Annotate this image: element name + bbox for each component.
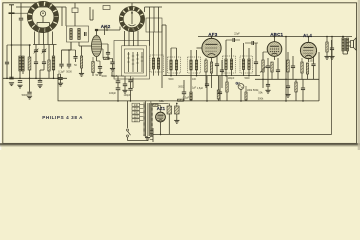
value 150 [309, 60, 314, 63]
wire [190, 76, 192, 101]
svg-text:PHILIPS 4 38 A: PHILIPS 4 38 A [42, 115, 83, 120]
coil L10d [157, 58, 159, 69]
wire [211, 73, 213, 88]
capacitor C9 [38, 80, 42, 82]
wire [43, 32, 45, 45]
svg-text:10k: 10k [159, 99, 164, 103]
wire [102, 44, 109, 52]
wire [274, 56, 276, 60]
wire [244, 43, 250, 76]
wire [35, 45, 37, 62]
value smudge d [244, 78, 250, 80]
capacitor C24 [276, 70, 280, 72]
capacitor C6 [34, 62, 38, 64]
wire [267, 86, 269, 90]
volume potentiometer R13 [260, 60, 266, 73]
bandswitch coil box inner [125, 49, 144, 73]
wire [308, 36, 310, 43]
wire [62, 49, 76, 51]
wire [205, 58, 207, 88]
trimmer capacitor C7 [42, 49, 47, 54]
resistor R11 [205, 60, 207, 72]
resistor R20 [301, 62, 303, 73]
wire [226, 76, 228, 101]
resistor R2 [48, 60, 50, 71]
coil L11 [170, 60, 172, 70]
resistor R23 [153, 104, 158, 106]
value 5000 [66, 71, 72, 74]
wire [165, 28, 167, 76]
right scan edge [358, 0, 360, 150]
bandswitch coil box mid [122, 46, 147, 76]
wire [57, 74, 59, 79]
wire [124, 31, 126, 46]
wire [153, 102, 169, 104]
capacitor C10 [85, 32, 87, 36]
resistor R15 [245, 92, 247, 100]
wire [53, 45, 55, 80]
wire [263, 52, 267, 79]
wire [262, 79, 264, 89]
coil L1 [19, 56, 21, 71]
wire [37, 23, 50, 27]
wire [267, 58, 269, 79]
small shield box [103, 6, 110, 10]
wire [29, 44, 31, 78]
capacitor C23b [266, 84, 270, 86]
ground [79, 73, 84, 76]
ground [17, 85, 22, 88]
IF coil can [150, 55, 164, 72]
capacitor C38 [123, 84, 127, 86]
capacitor C38b [128, 80, 132, 82]
wire [33, 44, 57, 46]
resistor R1 [28, 57, 31, 70]
value 5000b [101, 75, 107, 78]
wire [16, 6, 66, 8]
capacitor C15 [106, 52, 110, 54]
wire [105, 26, 108, 35]
svg-text:AL4: AL4 [303, 33, 312, 38]
wire [12, 44, 32, 46]
wire [150, 101, 152, 103]
ground [145, 138, 150, 141]
wire [211, 36, 213, 39]
label Gr [236, 82, 241, 86]
IF transformer T3 can [223, 56, 236, 73]
chassis boundary box [58, 74, 319, 135]
value 100k 500k [247, 88, 260, 92]
wire [292, 56, 294, 79]
antenna terminal [9, 5, 15, 13]
value 1uF [192, 87, 197, 90]
wire [58, 74, 61, 83]
capacitor C12b [73, 57, 77, 59]
wire [34, 32, 36, 45]
svg-text:5000: 5000 [66, 71, 72, 74]
svg-text:AF3: AF3 [208, 32, 217, 37]
value 50 [95, 74, 98, 77]
value 10k [159, 99, 164, 103]
wire [40, 64, 44, 80]
wire [226, 40, 232, 76]
ground [265, 90, 270, 93]
svg-text:ABC1: ABC1 [270, 32, 283, 37]
wire [117, 90, 119, 101]
resistor R6 [92, 62, 95, 73]
ground [285, 94, 290, 97]
svg-text:AK2: AK2 [101, 24, 111, 29]
capacitor C3 [18, 81, 22, 83]
mains lead [127, 101, 129, 128]
wire [342, 36, 347, 54]
wire [68, 66, 70, 69]
capacitor C33 [58, 78, 63, 80]
oscillator coil box [67, 26, 89, 42]
wire [285, 36, 287, 101]
label AK2 [101, 24, 111, 29]
coil L9b [152, 58, 154, 69]
octode V1 AK2 [92, 35, 102, 56]
resistor R16b [178, 99, 184, 101]
wire [154, 32, 159, 76]
switch contact block [72, 3, 78, 26]
coil L3 [52, 56, 55, 70]
resistor R16 [217, 90, 220, 99]
electrolytic C39 [167, 106, 172, 114]
wire [52, 32, 54, 45]
svg-text:100pF: 100pF [109, 92, 117, 95]
wire [171, 48, 177, 76]
wire [168, 103, 170, 134]
wire [313, 56, 315, 79]
capacitor C27 [218, 92, 222, 94]
resistor R5 [80, 56, 82, 68]
capacitor C1 [9, 77, 13, 79]
wire [68, 49, 70, 63]
value smudge a [168, 79, 174, 81]
svg-text:100pF: 100pF [228, 78, 235, 80]
value 100pF b [123, 94, 131, 97]
wire [287, 79, 289, 94]
svg-text:5000: 5000 [168, 79, 174, 81]
wire [183, 80, 185, 101]
wire [102, 49, 113, 58]
ground [324, 56, 329, 59]
wire [15, 12, 28, 14]
wire [240, 89, 242, 101]
svg-text:5000: 5000 [101, 75, 107, 78]
wire [267, 79, 269, 84]
mains switch [126, 129, 130, 137]
wire [295, 79, 297, 101]
IF transformer T2 can [188, 57, 201, 73]
wire [206, 76, 208, 101]
ground [27, 96, 32, 99]
value 5000 [22, 93, 28, 97]
wire [349, 42, 351, 46]
svg-text:200: 200 [134, 112, 139, 115]
grid cap lead [95, 27, 120, 36]
coil L4 [70, 29, 73, 40]
wire [92, 57, 94, 76]
coil L5 [78, 29, 81, 40]
coil L2 [22, 56, 24, 71]
wire [11, 44, 13, 79]
ground [9, 83, 14, 86]
wire [149, 32, 151, 46]
trimmer inside S1 [40, 11, 45, 23]
bandswitch coil box outer [114, 41, 150, 80]
capacitor C37 [116, 88, 121, 90]
value 1.5uF [197, 87, 204, 90]
capacitor C4 [27, 92, 31, 94]
wire [191, 50, 197, 76]
coil L12 [175, 60, 177, 70]
svg-text:300Ω: 300Ω [178, 86, 184, 89]
wire [158, 105, 161, 112]
wire [216, 56, 218, 76]
capacitor C14 [110, 62, 114, 64]
gramophone jack [238, 84, 244, 90]
value 100pFc [111, 75, 118, 78]
coil L10c [141, 52, 143, 72]
coil L19 [190, 92, 192, 100]
wire [302, 79, 304, 101]
coil L10 [132, 52, 134, 72]
capacitor C8 [42, 62, 46, 64]
ground [110, 68, 115, 71]
svg-text:0,1μF: 0,1μF [58, 71, 65, 74]
capacitor C22 [254, 62, 258, 64]
wire [48, 45, 50, 79]
wire [307, 74, 309, 79]
label AZ1 [157, 106, 166, 111]
label AL4 [303, 33, 312, 38]
resistor R21 [306, 63, 308, 74]
resistor R12 [210, 62, 212, 73]
wire [161, 25, 163, 88]
wire [20, 20, 22, 56]
value 300 [178, 86, 184, 89]
mains terminal [150, 128, 153, 142]
wire [128, 137, 148, 140]
pointer inside S2 [129, 11, 136, 26]
wire [144, 101, 146, 103]
value smudge c [228, 78, 235, 80]
svg-text:127: 127 [134, 116, 139, 119]
wire [47, 32, 49, 45]
wire [90, 7, 93, 20]
capacitor C26 [205, 84, 209, 86]
wire [255, 43, 257, 62]
capacitor C2 [19, 18, 23, 20]
wire [301, 58, 303, 79]
svg-text:100k 500k: 100k 500k [247, 88, 260, 92]
capacitor C31 [311, 64, 315, 66]
label ABC1 [270, 32, 283, 37]
anode rail [198, 36, 352, 38]
capacitor C11 [59, 64, 63, 66]
wire [62, 42, 72, 64]
svg-text:100pF: 100pF [123, 94, 131, 97]
capacitor C0 [5, 62, 9, 64]
wire [160, 122, 162, 134]
svg-text:50k: 50k [258, 91, 263, 95]
left paper edge highlight [0, 0, 1, 150]
bottom scan shadow [0, 143, 360, 147]
resistor R22 [326, 42, 328, 52]
wire [112, 58, 114, 68]
power section box [153, 45, 332, 134]
wire [130, 90, 132, 101]
transformer secondary winding [151, 103, 153, 137]
coil L7 [153, 18, 155, 32]
capacitor C12 [67, 64, 71, 66]
value 0.1uF [58, 71, 65, 74]
resistor R8h [104, 57, 110, 59]
wire [145, 137, 147, 138]
wire [112, 76, 124, 81]
wire [7, 45, 12, 62]
border frame [3, 3, 357, 144]
wire [43, 45, 45, 62]
label AF3 [208, 32, 217, 37]
wire [287, 52, 289, 79]
capacitor C19 [220, 70, 224, 72]
ground [97, 72, 102, 75]
wire [117, 83, 119, 88]
wire [197, 47, 203, 49]
wire [131, 3, 133, 6]
wire [75, 50, 77, 62]
resistor R17 [226, 82, 228, 92]
ground [58, 83, 63, 86]
capacitor C13 [98, 67, 102, 69]
capacitor C18 [215, 64, 219, 66]
wire [218, 76, 220, 101]
coil L10b [136, 52, 138, 72]
wire [326, 37, 328, 56]
capacitor C20 [226, 38, 240, 42]
svg-text:5000: 5000 [244, 78, 250, 80]
wire [221, 60, 223, 88]
svg-text:1,5μF: 1,5μF [197, 87, 204, 90]
ground [37, 85, 42, 88]
wire [245, 86, 247, 101]
wire [332, 40, 344, 45]
wire [133, 31, 135, 46]
output pentode V4 AL4 [300, 42, 316, 58]
ground [122, 90, 127, 93]
wire [124, 76, 126, 90]
transformer core [148, 103, 149, 136]
value 500k [258, 97, 264, 101]
electrolytic C40 [175, 106, 180, 114]
svg-text:240: 240 [134, 104, 139, 107]
wire [130, 76, 132, 88]
wire [97, 61, 101, 72]
wire [137, 31, 139, 46]
coil L17 [242, 59, 244, 70]
value 50k [258, 91, 263, 95]
value 0.5uF [183, 97, 190, 100]
resistor R18 [287, 60, 289, 72]
coil L8 [158, 18, 160, 32]
IF transformer T4 can [240, 56, 253, 73]
wire [219, 76, 221, 101]
ground [174, 120, 179, 123]
wire [308, 59, 310, 62]
svg-text:110: 110 [134, 119, 139, 122]
IF rail [163, 75, 260, 77]
transformer primary winding [143, 103, 145, 137]
wire [3, 77, 67, 79]
capacitor C28 [291, 66, 295, 68]
title PHILIPS 4 38 A [42, 115, 83, 120]
paper background [0, 0, 360, 150]
wire [111, 72, 113, 76]
rectifier V5 AZ1 [156, 112, 166, 122]
wire [19, 71, 23, 79]
value 50 [74, 64, 77, 67]
output transformer T5 [342, 38, 349, 51]
wire [35, 64, 37, 80]
capacitor C38c [128, 88, 132, 90]
value 22pF [234, 33, 240, 36]
value 100pF a [109, 92, 117, 95]
wire [107, 54, 108, 59]
wire [318, 52, 320, 101]
wire [128, 31, 130, 46]
value smudge b [192, 79, 197, 81]
coil L13 [190, 60, 192, 70]
wire [6, 64, 8, 79]
wire [145, 7, 162, 18]
wire [277, 58, 279, 79]
capacitor C23 [266, 66, 270, 68]
wire [81, 46, 83, 73]
coil L15 [225, 59, 227, 70]
svg-text:220: 220 [134, 108, 139, 111]
capacitor C36 [116, 81, 121, 83]
svg-text:500k: 500k [258, 97, 264, 101]
wire [61, 66, 63, 69]
wire [255, 64, 257, 76]
voltage selector taps [132, 103, 143, 122]
wire [29, 78, 31, 92]
coil box [146, 18, 162, 32]
wire [176, 103, 178, 120]
coil L18 [248, 59, 250, 70]
coil L6 [149, 18, 151, 32]
wire [20, 3, 22, 18]
svg-text:22pF: 22pF [234, 33, 240, 36]
wire [62, 7, 66, 26]
wire [38, 32, 40, 45]
wire [96, 57, 98, 61]
tuning drum switch S1 [27, 1, 58, 32]
wire [211, 58, 213, 62]
resistor R14 [271, 62, 273, 72]
wire [255, 78, 319, 80]
capacitor C25 [182, 92, 186, 94]
wire [132, 78, 134, 89]
IF transformer T1 can [168, 57, 181, 73]
svg-text:AZ1: AZ1 [157, 106, 166, 111]
capacitor C32 [330, 48, 334, 50]
capacitor C30 [301, 88, 305, 90]
